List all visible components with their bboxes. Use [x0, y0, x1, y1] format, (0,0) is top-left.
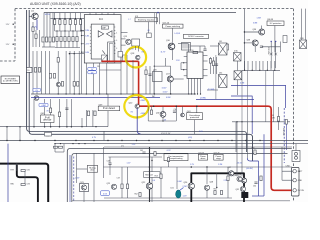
- wire vertical A4: [69, 12, 71, 18]
- wire teal v: [176, 167, 178, 189]
- wire vertical G244.6: [244, 61, 246, 70]
- wire q38 drop: [254, 46, 256, 52]
- resistor R44: [94, 111, 96, 116]
- thick trace 2: [17, 165, 38, 202]
- diode pack D15: [234, 53, 242, 62]
- node M66.1: [65, 93, 66, 94]
- resistor R12: [60, 37, 62, 42]
- svg-text:1.3M: 1.3M: [257, 18, 262, 20]
- resistor R20: [57, 58, 59, 63]
- node y121 a: [162, 120, 163, 121]
- wire vertical H273.3: [272, 70, 274, 122]
- svg-text:R53: R53: [155, 176, 158, 178]
- svg-text:0.6: 0.6: [153, 180, 156, 182]
- wire Q39 down: [107, 111, 109, 127]
- wire vertical G248: [247, 61, 249, 70]
- node det b: [95, 126, 96, 127]
- wire y196 navy h: [252, 195, 264, 197]
- wire rail y140.5: [0, 140, 308, 142]
- resistor R1b: [35, 34, 37, 38]
- resistor R2: [54, 20, 56, 25]
- wire rail y94: [31, 93, 196, 95]
- svg-text:R71 1/2W: R71 1/2W: [267, 47, 269, 55]
- node y31 c: [72, 30, 73, 31]
- node y94 x170.7: [170, 93, 171, 94]
- svg-text:C41: C41: [140, 150, 143, 152]
- wire muting h: [77, 168, 88, 170]
- wire vertical B5b: [72, 42, 74, 48]
- svg-text:-1.2V: -1.2V: [166, 150, 171, 152]
- resistor R54: [167, 158, 169, 162]
- wire Q17 up: [169, 66, 171, 76]
- wire vertical B4b: [68, 42, 70, 48]
- wire Q16 down: [172, 48, 174, 60]
- wire IC4 top x90: [89, 12, 91, 14]
- node rail140 x55: [54, 140, 55, 141]
- wire x282 v conn: [281, 147, 283, 180]
- svg-text:11.7V: 11.7V: [161, 51, 167, 53]
- op-amp U1a triangle: [98, 31, 104, 37]
- polarity mark a: [270, 53, 273, 56]
- label box Power stage: [214, 154, 223, 160]
- node y94 x106.8: [106, 93, 107, 94]
- wire rail y70.3 right: [242, 69, 280, 71]
- node thick a: [205, 172, 207, 174]
- diode pack D11: [219, 43, 228, 55]
- node y122 x242: [241, 121, 242, 122]
- svg-text:15.3V: 15.3V: [129, 49, 135, 51]
- wire x36 v top: [35, 30, 37, 47]
- wire Q43 up: [182, 106, 184, 113]
- wire y70 h mid: [100, 69, 121, 71]
- connector pin BATT: [293, 170, 296, 173]
- svg-text:12V: 12V: [6, 44, 10, 46]
- svg-text:D5: D5: [97, 66, 99, 68]
- transistor Q36: [259, 29, 265, 35]
- svg-text:(4.8): (4.8): [188, 137, 192, 139]
- op-amp U1b triangle: [107, 31, 113, 37]
- node net5v: [13, 24, 14, 25]
- wire x122 v2: [121, 189, 123, 198]
- resistor R24: [73, 82, 75, 87]
- node y53.7 a: [69, 53, 70, 54]
- svg-text:Q30: Q30: [233, 175, 237, 177]
- wire vertical M8: [69, 51, 71, 94]
- svg-text:0.5V: 0.5V: [103, 193, 108, 195]
- svg-text:(to DETECTOR): (to DETECTOR): [3, 80, 18, 83]
- node rail140 x162: [161, 140, 162, 141]
- node rail140 x122: [121, 140, 122, 141]
- transistor Q20: [135, 104, 139, 108]
- wire vertical x20: [19, 127, 21, 141]
- svg-text:Switching regulator: Switching regulator: [138, 19, 155, 22]
- IC6 pin right 0: [203, 55, 208, 57]
- IC6 pin right 1: [203, 60, 208, 62]
- wire rail y90 r: [207, 89, 218, 91]
- wire vertical D50.6: [50, 99, 52, 127]
- svg-text:4.8M: 4.8M: [166, 97, 171, 99]
- wire navy y96: [231, 96, 252, 122]
- resistor R24b: [77, 82, 79, 87]
- label box DC/DC converter: [184, 34, 209, 38]
- wire vertical D66.9: [66, 99, 68, 127]
- wire vertical A1: [54, 12, 56, 18]
- label box DC protection: [267, 21, 284, 26]
- wire vertical A6: [80, 12, 82, 18]
- wire navy dashed x284: [283, 108, 285, 163]
- red highlight wire vertical: [138, 61, 140, 106]
- svg-text:1.2M: 1.2M: [218, 164, 223, 166]
- sub box E1: [118, 52, 123, 58]
- node IC6 pl1: [183, 62, 184, 63]
- wire x82 v det: [81, 118, 83, 127]
- node G274.8: [274, 70, 275, 71]
- node IC4 left 1: [81, 30, 82, 31]
- wire vertical D71.4: [70, 99, 72, 127]
- node rail126 x7: [6, 126, 8, 128]
- yellow highlight circle 1: [126, 47, 147, 68]
- svg-text:GND: GND: [298, 180, 303, 182]
- label box Switching regulator: [135, 18, 158, 22]
- wire vertical M7: [65, 51, 67, 94]
- relay D19 box: [300, 40, 307, 49]
- amp module outer border: [67, 148, 291, 202]
- wire x280.4 v: [279, 42, 281, 53]
- wire x133 v2: [132, 60, 134, 94]
- resistor R30: [193, 51, 198, 53]
- IC4 pin stub left 4: [82, 51, 85, 53]
- IC6 pin top 2: [199, 46, 201, 52]
- node y143 c: [84, 143, 85, 144]
- wire vertical B5: [72, 31, 74, 37]
- wire rail y122: [232, 121, 290, 123]
- svg-text:Q28: Q28: [210, 182, 214, 184]
- wire jp1 up: [295, 144, 297, 151]
- resistor R63: [277, 117, 279, 122]
- wire x305 v top: [305, 9, 307, 40]
- wire vertical A5: [74, 12, 76, 18]
- node G252.2: [252, 70, 253, 71]
- node rail140 x232: [231, 140, 232, 141]
- resistor R80: [21, 184, 25, 186]
- wire x274.9 v: [274, 26, 276, 53]
- svg-text:4.8M: 4.8M: [141, 113, 146, 115]
- wire Q17 right: [173, 78, 183, 80]
- op-amp IC4 inner box: [91, 24, 114, 59]
- svg-text:(-60.8V): (-60.8V): [246, 168, 253, 170]
- transistor Q29: [241, 178, 246, 183]
- IC4 pin stub left 3: [82, 43, 85, 45]
- resistor R27: [50, 108, 52, 113]
- wire Q26 dn: [149, 189, 151, 202]
- node y94 x99.6: [99, 93, 100, 94]
- wire GND lead: [282, 179, 293, 181]
- resistor R18: [45, 37, 47, 42]
- svg-text:compensating: compensating: [170, 157, 183, 160]
- resistor R81: [54, 146, 58, 148]
- resistor R40: [209, 59, 211, 64]
- resistor R50: [121, 184, 123, 189]
- resistor R41: [212, 61, 214, 66]
- wire vertical D34: [33, 99, 35, 127]
- resistor R43: [87, 111, 89, 116]
- transformer box L4: [182, 43, 191, 51]
- svg-text:R80: R80: [11, 184, 14, 186]
- IC4 pin right 3: [121, 44, 126, 46]
- wire x86.3 v mid: [85, 63, 87, 94]
- node rail126 x20: [19, 126, 21, 128]
- transistor Q7: [34, 96, 39, 101]
- node rail126 x50.6: [50, 126, 52, 128]
- node y53.7 b: [74, 53, 75, 54]
- resistor R51: [126, 184, 128, 189]
- svg-text:4: 4: [116, 32, 117, 34]
- svg-text:0.6M: 0.6M: [85, 52, 89, 54]
- wire vertical H247.3: [246, 70, 248, 122]
- wire vertical B1b: [56, 42, 58, 48]
- wire vertical x50 low: [49, 42, 51, 47]
- wire vertical G252.2: [251, 61, 253, 70]
- sub box E2: [123, 55, 127, 61]
- node rail140 x7: [6, 140, 7, 141]
- svg-text:Q15: Q15: [124, 36, 128, 38]
- svg-text:Q31: Q31: [236, 189, 240, 191]
- node y94 x133: [132, 93, 133, 94]
- wire Q16 up: [172, 28, 174, 43]
- svg-text:D11: D11: [219, 41, 222, 43]
- wire vertical B1: [56, 31, 58, 37]
- resistor R53: [160, 174, 162, 179]
- wire rail y198 bottom: [104, 197, 232, 199]
- IC6 pin left 3: [184, 75, 187, 77]
- svg-text:C19: C19: [117, 178, 120, 180]
- resistor array block: [108, 42, 115, 63]
- svg-text:R61: R61: [214, 189, 217, 191]
- svg-text:Q25: Q25: [107, 183, 111, 185]
- node y143 a: [72, 143, 73, 144]
- wire vertical x244.4 tall: [243, 9, 245, 71]
- svg-text:AUDIO UNIT (X09-5160-10) (A/2): AUDIO UNIT (X09-5160-10) (A/2): [30, 2, 81, 6]
- wire x70 bottom: [69, 155, 71, 202]
- wire Q1 blue drop: [36, 20, 38, 31]
- node rail126 x59.5: [59, 126, 61, 128]
- node IC4 left 2: [81, 35, 82, 36]
- diode pack D18: [234, 71, 242, 80]
- node r82 a: [60, 143, 61, 144]
- wire x154.3 v: [153, 13, 155, 94]
- wire vertical M1: [32, 51, 34, 94]
- svg-text:12V: 12V: [6, 24, 10, 26]
- node y122 x252: [252, 121, 253, 122]
- wire x168.5 v: [168, 161, 170, 168]
- wire x237 v mid: [236, 122, 238, 177]
- wire x242 v mid: [241, 122, 243, 177]
- svg-text:L4,D8: L4,D8: [175, 33, 181, 35]
- wire IC4 top x102: [101, 12, 103, 14]
- node rail13 x158: [157, 12, 159, 14]
- resistor R16: [76, 37, 78, 42]
- diode pack D14: [219, 75, 228, 88]
- wire vertical G263: [262, 61, 264, 70]
- svg-text:D21: D21: [171, 188, 174, 190]
- node rail140 x218: [217, 140, 218, 141]
- wire x94 bottom: [93, 154, 95, 203]
- thick trace 1: [0, 164, 48, 202]
- node IC6 bottom 3: [197, 93, 198, 94]
- node y167 a: [149, 166, 151, 168]
- node q36 left: [244, 31, 245, 32]
- resistor R15: [72, 37, 74, 42]
- wire R63 up: [278, 107, 280, 117]
- wire x150 v mid: [149, 66, 151, 94]
- power bus line 2: [28, 10, 30, 132]
- wire x258 navy v: [258, 161, 260, 196]
- svg-text:P-CON: P-CON: [298, 190, 305, 192]
- wire y53.7 h: [69, 53, 84, 55]
- wire vertical A6b: [80, 25, 82, 32]
- node rail126 x71.4: [71, 126, 73, 128]
- blue tag 5V b: [88, 71, 97, 75]
- wire x196.8 v: [196, 106, 198, 113]
- wire vertical C4: [52, 12, 54, 36]
- svg-text:P-on detect: P-on detect: [103, 107, 116, 110]
- red highlight wire horizontal upper: [102, 60, 139, 62]
- label box idling: [144, 172, 160, 178]
- power bus elbow 1: [27, 129, 247, 153]
- wire IC4 top x114: [113, 12, 115, 14]
- wire x81.5 vertical: [81, 19, 83, 94]
- node y31 a: [56, 30, 57, 31]
- label box P-off detector: [41, 115, 55, 123]
- wire c18 v: [109, 157, 111, 163]
- svg-text:detector: detector: [43, 119, 52, 122]
- svg-text:6: 6: [116, 40, 117, 42]
- IC6 pin bottom 0: [188, 78, 190, 94]
- wire q40 down: [162, 117, 164, 121]
- wire navy y85.4: [231, 85, 286, 108]
- wire c18 v2: [109, 164, 111, 175]
- wire blue rail y97.5: [31, 97, 160, 99]
- resistor R21: [49, 74, 51, 79]
- cap box C36: [283, 36, 287, 43]
- wire Q1 to bus: [29, 15, 32, 17]
- svg-text:R52: R52: [135, 194, 138, 196]
- wire x247 v mid: [246, 122, 248, 158]
- wire vertical A2: [59, 12, 61, 18]
- wire long vert a: [270, 42, 272, 69]
- wire vertical D44.6: [44, 99, 46, 127]
- wire x99.6 v mid: [99, 63, 101, 94]
- resistor R14: [68, 37, 70, 42]
- node A6: [80, 18, 81, 19]
- IC6 pin top 1: [188, 44, 190, 52]
- wire IC4 top x108: [107, 12, 109, 14]
- svg-text:470-123 1W: 470-123 1W: [161, 133, 171, 135]
- resistor R45: [150, 110, 152, 114]
- component black block: [241, 192, 248, 198]
- svg-text:16.5V: 16.5V: [45, 14, 51, 16]
- resistor R28: [58, 112, 60, 117]
- svg-text:C18: C18: [107, 161, 110, 163]
- wire x86.4 v det: [85, 110, 87, 127]
- thick trace amp: [191, 173, 244, 202]
- wire vertical H242: [241, 70, 243, 122]
- svg-text:2.2M: 2.2M: [183, 186, 187, 188]
- blue tag 0V left: [33, 88, 41, 92]
- wire vertical D59.5: [59, 99, 61, 127]
- jumper JP1 box: [292, 151, 300, 162]
- wire rail y143.6: [55, 143, 308, 145]
- node IC4 left 3: [81, 43, 82, 44]
- wire vertical M5: [49, 51, 51, 94]
- svg-text:DC protection: DC protection: [270, 22, 282, 25]
- label box For temperature compensating: [164, 154, 188, 161]
- wire vertical B2: [60, 31, 62, 37]
- svg-text:3.4M: 3.4M: [85, 35, 89, 37]
- node M79.2: [79, 93, 80, 94]
- wire navy x252 v: [251, 122, 253, 134]
- wire R63 down: [278, 121, 280, 130]
- wire vertical x7: [6, 127, 8, 141]
- node red a: [153, 105, 155, 107]
- connector pin GND: [293, 179, 296, 182]
- node red start: [101, 61, 103, 63]
- resistor R20: [52, 37, 54, 42]
- node rail140 x149: [148, 140, 149, 141]
- wire D8 left: [210, 45, 222, 47]
- label box Muting drive: [87, 165, 97, 172]
- svg-text:0.6M: 0.6M: [178, 181, 182, 183]
- wire vertical G274.8: [274, 61, 276, 70]
- wire x228 v2: [227, 181, 229, 198]
- svg-text:C92: C92: [27, 170, 30, 172]
- wire vertical C1: [43, 12, 45, 36]
- transistor Q38: [252, 40, 258, 46]
- transistor Q16: [168, 43, 175, 50]
- resistor R66: [260, 176, 262, 181]
- wire x161 v: [160, 167, 162, 174]
- wire rail y126.5: [0, 126, 108, 128]
- unit border dashed left exit: [0, 60, 15, 62]
- node y31 b: [64, 30, 65, 31]
- transistor Q15: [126, 39, 131, 44]
- node lv b: [275, 41, 276, 42]
- transistor Q17: [167, 76, 173, 82]
- resistor R23: [61, 82, 63, 87]
- wire vertical F2: [216, 57, 218, 74]
- blue tag 0.5V: [101, 191, 110, 196]
- capacitor C30: [173, 111, 176, 112]
- IC6 pin bottom 4: [200, 78, 202, 94]
- label box P-on detect: [98, 106, 120, 111]
- wire Q17 down: [169, 82, 171, 94]
- wire vertical B6: [76, 31, 78, 37]
- node A5: [75, 18, 76, 19]
- wire rail y157: [109, 156, 163, 158]
- wire rail y167 bottom: [103, 166, 292, 168]
- wire D18 down: [237, 80, 239, 95]
- IC4 pin right 1: [121, 32, 128, 34]
- wire rail y200.8: [72, 200, 290, 202]
- IC6 pin right 3: [203, 75, 208, 77]
- wire vertical x44 low: [43, 42, 45, 47]
- wire x103.4 bottom: [102, 147, 104, 178]
- resistor R13: [64, 37, 66, 42]
- node y122 x237b: [236, 121, 237, 122]
- svg-text:R65: R65: [252, 148, 255, 150]
- wire L4 to right: [191, 45, 206, 47]
- transistor Q40: [160, 112, 166, 118]
